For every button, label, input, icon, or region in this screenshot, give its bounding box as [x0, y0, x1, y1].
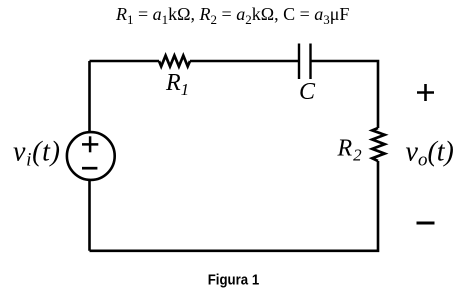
output plus sign — [417, 84, 434, 101]
voltage source minus — [82, 167, 97, 170]
voltage source V1 circle — [67, 132, 115, 180]
resistor R1 — [159, 56, 190, 67]
resistor R2 — [372, 128, 385, 161]
wire source top to top-left corner — [88, 61, 91, 131]
wire R2 down to bottom-right corner and bottom wire — [90, 161, 379, 251]
capacitor C plates — [299, 44, 311, 80]
wire R1 to capacitor — [190, 60, 299, 63]
svg-text:R2: R2 — [337, 136, 363, 165]
svg-text:C: C — [299, 79, 316, 105]
svg-text:R1: R1 — [165, 70, 189, 99]
svg-text:vo(t): vo(t) — [406, 137, 454, 171]
output minus sign — [417, 222, 435, 225]
voltage source plus — [82, 136, 98, 152]
svg-text:Figura 1: Figura 1 — [208, 271, 260, 288]
svg-text:vi(t): vi(t) — [13, 137, 61, 171]
svg-text:R1 = a1kΩ, R2 = a2kΩ, C = a3μF: R1 = a1kΩ, R2 = a2kΩ, C = a3μF — [115, 4, 349, 27]
wire bottom-left up to source — [88, 181, 91, 251]
wire capacitor to top-right corner and down to R2 — [311, 61, 379, 128]
wire top-left segment — [90, 60, 160, 63]
equation label: R1 = a1 kOhm, R2 = a2 kOhm, C = a3 uF — [115, 4, 349, 27]
